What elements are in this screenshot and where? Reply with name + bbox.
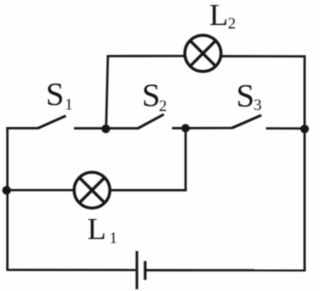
wire: L2 branch left horizontal xyxy=(107,55,185,57)
wire: L1 branch left of lamp xyxy=(6,189,74,191)
wire: riser from node A up to L2 branch xyxy=(106,56,108,129)
switch S2 blade xyxy=(138,114,164,128)
node D junction dot on left wire xyxy=(2,186,11,195)
wire: bottom wire left of battery xyxy=(6,269,135,271)
svg-text:L: L xyxy=(209,0,228,32)
wire: L2 branch right horizontal xyxy=(221,55,305,58)
label S2 xyxy=(142,78,167,115)
node C junction dot on right wire xyxy=(300,125,309,134)
switch S1 blade xyxy=(38,116,66,128)
lamp L1 xyxy=(74,172,110,208)
wire: switch row left segment to S1 xyxy=(6,127,38,129)
wire: S3 to right wire xyxy=(266,127,306,129)
wire: riser from node B down to L1 branch xyxy=(184,128,186,191)
svg-text:2: 2 xyxy=(159,97,167,115)
svg-text:1: 1 xyxy=(109,229,117,247)
svg-text:L: L xyxy=(87,211,106,246)
svg-text:2: 2 xyxy=(228,15,236,33)
label L2 xyxy=(209,0,236,33)
wire: S1 to S2 segment through node A xyxy=(74,127,139,129)
lamp L2 xyxy=(185,35,221,71)
wire: right vertical wire xyxy=(303,55,305,271)
wire: bottom wire right of battery xyxy=(146,269,305,271)
svg-text:1: 1 xyxy=(65,95,73,113)
switch S3 blade xyxy=(232,115,261,128)
battery B1 long plate (+) xyxy=(136,251,139,289)
svg-text:S: S xyxy=(142,78,160,114)
node B junction dot xyxy=(181,124,189,132)
label S3 xyxy=(236,78,262,114)
svg-text:S: S xyxy=(236,78,254,114)
wire: left vertical wire xyxy=(6,127,8,270)
wire: S2 to S3 segment through node B xyxy=(172,127,233,129)
node A junction dot xyxy=(101,124,110,133)
svg-text:S: S xyxy=(46,77,64,113)
label S1 xyxy=(46,77,73,113)
battery B1 short plate (-) xyxy=(144,261,147,280)
svg-text:3: 3 xyxy=(254,96,262,114)
label L1 xyxy=(87,211,117,247)
wire: L1 branch right of lamp xyxy=(110,189,187,191)
